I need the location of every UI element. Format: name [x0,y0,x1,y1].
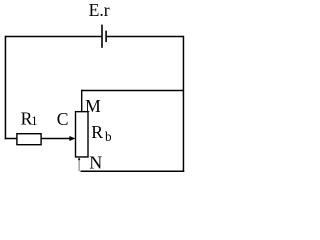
wire bottom-left horizontal to wiper [5,138,71,140]
wire left vertical [4,36,6,140]
label Rb [91,122,112,144]
wire top-right segment [106,36,183,38]
wiper arrow C [69,136,75,141]
svg-text:1: 1 [31,114,37,128]
wire bottom horizontal [81,170,185,172]
wire top-left segment [5,36,102,38]
wire right vertical [182,36,184,172]
label R1 [21,108,38,128]
potentiometer Rb body [76,112,89,157]
wire middle horizontal (M to right rail) [81,90,183,92]
label E.r [89,0,110,20]
battery E,r short plate [105,31,107,42]
svg-text:M: M [85,96,101,116]
label M [85,96,101,116]
svg-text:C: C [57,109,69,129]
svg-text:E.r: E.r [89,0,110,20]
label N [89,153,102,173]
resistor R1 [17,134,41,145]
label C [57,109,69,129]
battery E,r long plate [101,25,103,48]
pot bottom lead (node N) [78,157,80,171]
svg-text:b: b [105,129,112,144]
pot top lead (node M) [81,90,83,112]
svg-text:N: N [89,153,102,173]
svg-text:R: R [91,122,103,142]
